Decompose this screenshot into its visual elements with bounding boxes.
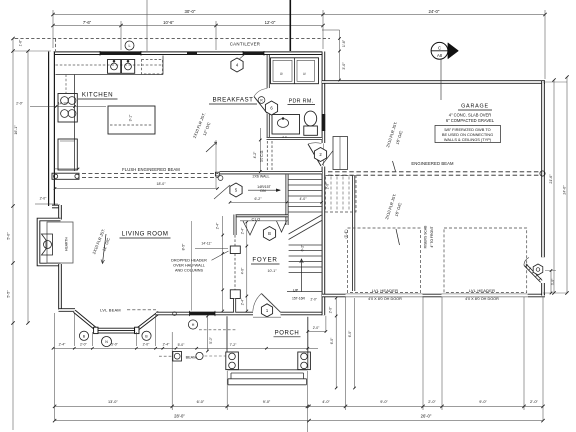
svg-text:9'-0": 9'-0" — [479, 400, 487, 404]
svg-text:DN: DN — [260, 189, 266, 193]
svg-text:18'-0": 18'-0" — [157, 182, 167, 186]
svg-text:2'-0": 2'-0" — [326, 182, 330, 189]
svg-text:LIVING ROOM: LIVING ROOM — [122, 231, 169, 238]
svg-text:24'-0": 24'-0" — [563, 185, 567, 195]
svg-text:LVL BEAM: LVL BEAM — [100, 308, 121, 313]
svg-text:10'-1": 10'-1" — [268, 269, 278, 273]
svg-text:9'-0": 9'-0" — [380, 400, 388, 404]
svg-text:2'-4": 2'-4" — [163, 343, 171, 347]
svg-text:2X6 WALL: 2X6 WALL — [252, 175, 269, 179]
svg-text:2'-0": 2'-0" — [80, 343, 88, 347]
svg-text:LVL HEADER: LVL HEADER — [469, 288, 495, 293]
svg-text:2'-0": 2'-0" — [428, 400, 436, 404]
svg-text:OVER HALFWALL: OVER HALFWALL — [173, 264, 205, 268]
svg-text:2'-0": 2'-0" — [16, 101, 24, 105]
svg-text:6" COMPACTED GRAVEL: 6" COMPACTED GRAVEL — [446, 118, 495, 123]
svg-text:1'-6": 1'-6" — [342, 39, 346, 47]
svg-text:B: B — [268, 231, 271, 236]
svg-text:5'-0": 5'-0" — [7, 232, 11, 240]
svg-text:2'-4": 2'-4" — [215, 222, 219, 229]
svg-text:DROPPED HEADER: DROPPED HEADER — [171, 259, 207, 263]
svg-text:HEARTH: HEARTH — [65, 237, 69, 251]
svg-text:PDR RM.: PDR RM. — [289, 98, 314, 104]
svg-text:4'-0": 4'-0" — [241, 267, 245, 274]
svg-text:13'-0": 13'-0" — [108, 400, 118, 404]
svg-text:2'-0": 2'-0" — [313, 326, 320, 330]
svg-text:5'-0": 5'-0" — [178, 343, 186, 347]
svg-text:4'0 X 8'0 OH DOOR: 4'0 X 8'0 OH DOOR — [368, 297, 402, 301]
svg-text:4" CONC. SLAB OVER: 4" CONC. SLAB OVER — [449, 112, 491, 117]
svg-text:3'-1": 3'-1" — [129, 114, 133, 122]
svg-text:5'-0": 5'-0" — [209, 336, 213, 344]
svg-text:2'-4": 2'-4" — [241, 298, 245, 305]
svg-text:1'-6": 1'-6" — [19, 39, 23, 47]
svg-text:2'-0": 2'-0" — [143, 343, 151, 347]
svg-text:14'-11": 14'-11" — [201, 242, 212, 246]
svg-text:AND COLUMNS: AND COLUMNS — [175, 269, 204, 273]
svg-text:10'-6": 10'-6" — [163, 20, 174, 25]
svg-text:4'0 X 8'0 OH DOOR: 4'0 X 8'0 OH DOOR — [465, 297, 499, 301]
svg-text:7'-6": 7'-6" — [83, 20, 92, 25]
svg-text:8'-5": 8'-5" — [182, 243, 186, 251]
svg-text:5'-0": 5'-0" — [111, 343, 119, 347]
svg-text:2'-0": 2'-0" — [530, 399, 539, 404]
svg-text:2'-0": 2'-0" — [40, 197, 48, 201]
svg-text:GARAGE: GARAGE — [461, 104, 489, 110]
svg-text:15T-16R: 15T-16R — [292, 296, 306, 300]
svg-text:H: H — [192, 323, 195, 327]
svg-text:BREAKFAST: BREAKFAST — [213, 97, 254, 104]
svg-text:6'-2": 6'-2" — [301, 244, 305, 252]
svg-text:3'-0": 3'-0" — [551, 278, 555, 285]
svg-text:2'-0": 2'-0" — [329, 306, 333, 313]
svg-text:6'-0": 6'-0" — [348, 330, 352, 337]
svg-text:ENGINEERED BEAM: ENGINEERED BEAM — [411, 161, 454, 166]
svg-text:2-0: 2-0 — [282, 135, 287, 139]
svg-text:2'-4": 2'-4" — [59, 343, 67, 347]
svg-text:5'-5": 5'-5" — [7, 290, 11, 298]
svg-text:2'-4": 2'-4" — [241, 227, 245, 234]
svg-text:FOYER: FOYER — [252, 257, 277, 264]
svg-text:BEAM: BEAM — [186, 356, 197, 360]
svg-text:4'-0": 4'-0" — [322, 400, 330, 404]
svg-text:WALLS & CEILINGS (TYP): WALLS & CEILINGS (TYP) — [444, 137, 492, 142]
svg-text:4" TO FRONT: 4" TO FRONT — [430, 226, 434, 247]
svg-text:3'0 C.O.: 3'0 C.O. — [260, 150, 264, 162]
svg-text:FLUSH ENGINEERED BEAM: FLUSH ENGINEERED BEAM — [122, 167, 180, 172]
svg-text:KITCHEN: KITCHEN — [82, 92, 113, 99]
svg-text:26'-0": 26'-0" — [421, 414, 432, 419]
svg-text:C: C — [438, 45, 441, 50]
svg-text:LVL HEADER: LVL HEADER — [372, 288, 398, 293]
svg-text:PORCH: PORCH — [275, 330, 300, 336]
svg-text:(3'-4"): (3'-4") — [344, 229, 348, 238]
svg-text:L: L — [128, 44, 130, 48]
svg-text:3'-0": 3'-0" — [342, 62, 346, 70]
svg-text:N: N — [105, 340, 108, 344]
svg-text:9'-0": 9'-0" — [263, 400, 271, 404]
svg-text:21'-6": 21'-6" — [549, 174, 553, 184]
svg-text:A8: A8 — [437, 53, 443, 58]
svg-text:6'-2": 6'-2" — [255, 197, 263, 201]
svg-text:2'-0": 2'-0" — [311, 298, 317, 302]
svg-text:4'-0": 4'-0" — [300, 197, 308, 201]
svg-text:4'-2": 4'-2" — [253, 151, 257, 159]
svg-text:16'-1": 16'-1" — [14, 125, 18, 135]
svg-text:7'-2": 7'-2" — [230, 343, 238, 347]
svg-text:6'-0": 6'-0" — [197, 400, 205, 404]
svg-text:24'-0": 24'-0" — [429, 9, 440, 14]
svg-text:14'-10": 14'-10" — [58, 101, 69, 105]
svg-text:UP: UP — [293, 289, 299, 293]
svg-text:6'-0": 6'-0" — [330, 337, 334, 344]
svg-text:30'-0": 30'-0" — [185, 9, 196, 14]
svg-text:CANTILEVER: CANTILEVER — [230, 41, 261, 46]
svg-text:28'-0": 28'-0" — [174, 414, 185, 419]
svg-text:12'-0": 12'-0" — [265, 20, 276, 25]
svg-text:RISERS SCAB: RISERS SCAB — [424, 225, 428, 249]
